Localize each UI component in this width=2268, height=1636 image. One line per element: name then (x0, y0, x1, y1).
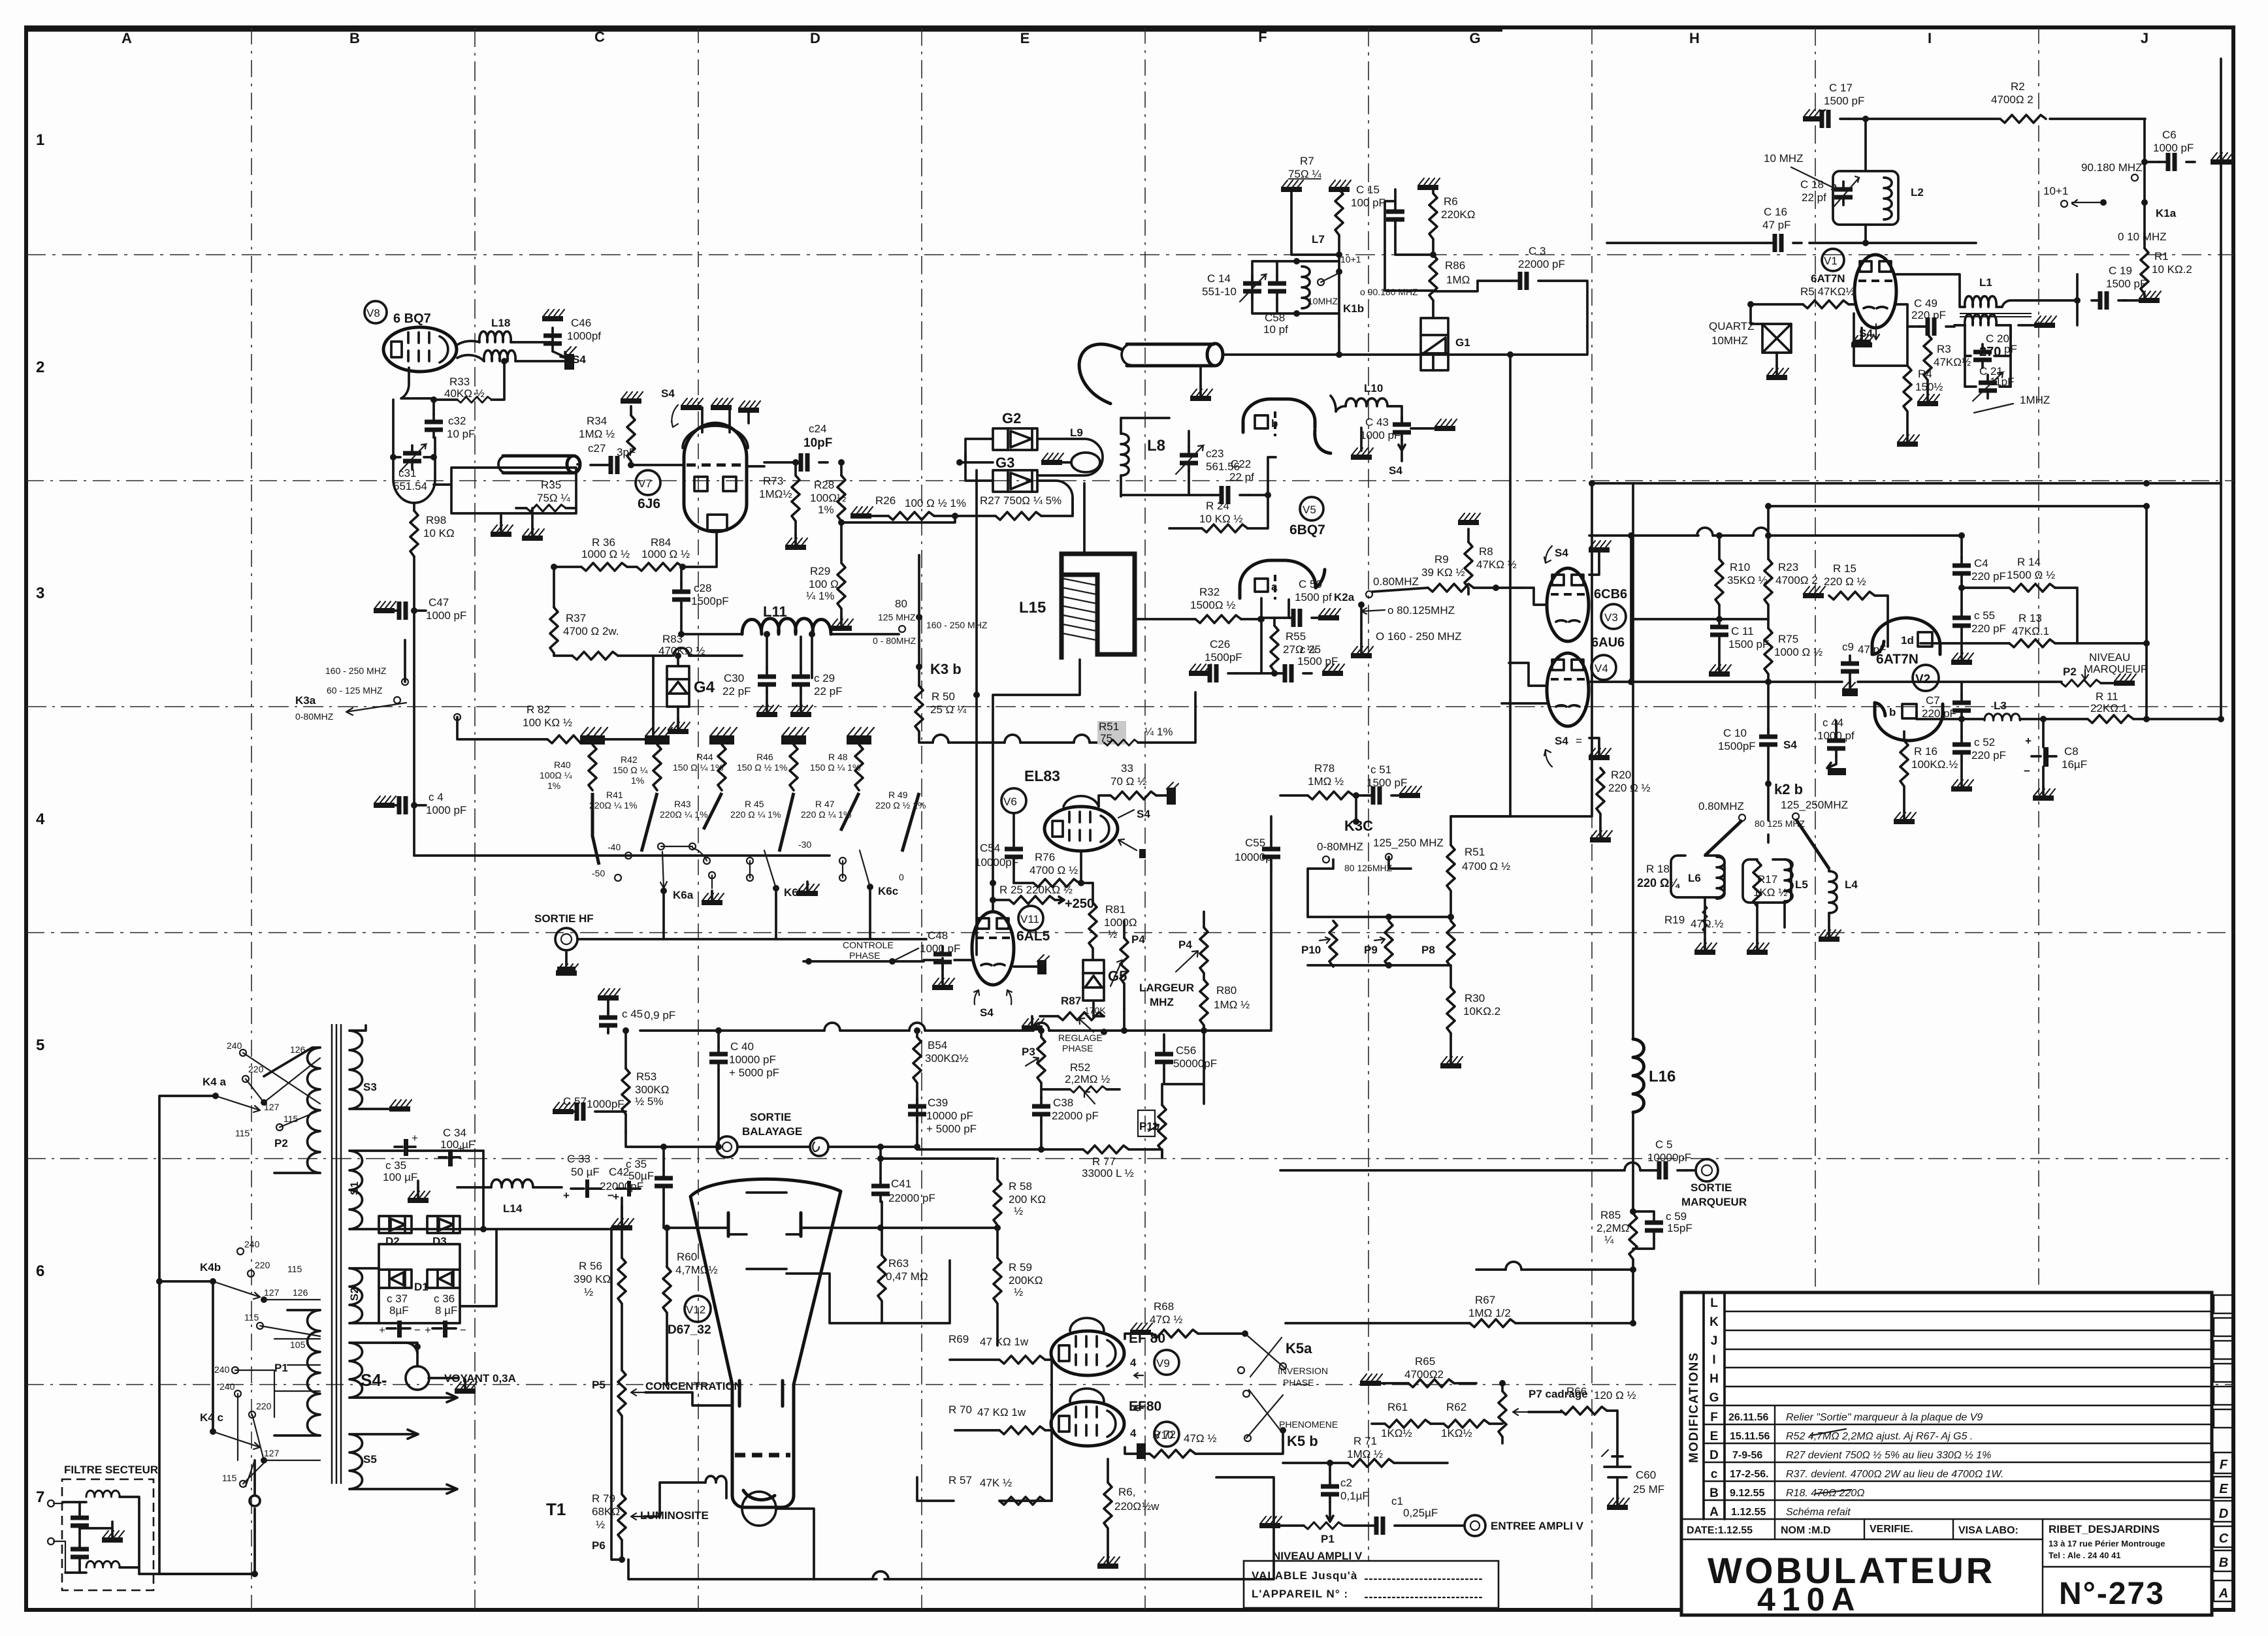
svg-text:126: 126 (293, 1287, 308, 1298)
marker bus (1589, 681, 1842, 683)
svg-text:G: G (1709, 1391, 1719, 1405)
resistor R9 (1428, 584, 1474, 592)
resistor R77 (1083, 1146, 1129, 1153)
svg-text:1500pF: 1500pF (1718, 740, 1756, 752)
svg-text:-50: -50 (592, 868, 605, 878)
svg-text:1: 1 (36, 131, 44, 149)
svg-text:50000pF: 50000pF (1173, 1057, 1217, 1070)
svg-text:1MΩ 1/2: 1MΩ 1/2 (1468, 1307, 1511, 1319)
resistor R24 (1202, 524, 1248, 532)
svg-text:+: + (457, 1142, 464, 1155)
terminal sortie marqueur (1686, 1169, 1694, 1172)
svg-text:39 KΩ ½: 39 KΩ ½ (1421, 566, 1465, 579)
svg-text:47 pF: 47 pF (1762, 219, 1790, 231)
svg-text:R17: R17 (1757, 873, 1777, 886)
svg-text:½: ½ (596, 1518, 605, 1531)
resistor R59 (994, 1258, 1001, 1304)
svg-text:−: − (460, 1324, 466, 1336)
svg-text:22KΩ.1: 22KΩ.1 (2090, 702, 2128, 714)
svg-text:c28: c28 (694, 582, 711, 594)
svg-text:R 77: R 77 (1092, 1155, 1116, 1168)
wire K3a bus (405, 640, 830, 856)
resistor R60 (663, 1267, 671, 1313)
wire to CRT plate (664, 1227, 728, 1229)
svg-text:c 36: c 36 (434, 1292, 455, 1305)
svg-text:Schéma refait: Schéma refait (1786, 1507, 1851, 1518)
svg-text:N°-273: N°-273 (2059, 1577, 2165, 1611)
svg-text:1500 pF: 1500 pF (1824, 95, 1864, 107)
svg-text:=: = (1576, 735, 1582, 747)
svg-text:L11: L11 (763, 603, 787, 620)
svg-text:V6: V6 (1003, 795, 1017, 808)
svg-text:1000 pF: 1000 pF (426, 609, 466, 622)
svg-text:22000 pF: 22000 pF (1518, 258, 1565, 270)
wires bottom CRT loop (628, 1476, 814, 1579)
svg-text:R67: R67 (1475, 1294, 1495, 1306)
svg-text:RIBET_DESJARDINS: RIBET_DESJARDINS (2049, 1523, 2160, 1535)
coil L14 (491, 1179, 533, 1187)
CRT envelope (690, 1179, 841, 1507)
svg-text:VISA LABO:: VISA LABO: (1958, 1525, 2018, 1536)
resistor R10 (1715, 559, 1723, 605)
svg-text:100 Ω: 100 Ω (809, 578, 839, 590)
resistor R78b (1308, 792, 1353, 799)
tube V7 (684, 423, 747, 532)
svg-text:C41: C41 (891, 1178, 911, 1190)
svg-text:25 Ω ¼: 25 Ω ¼ (930, 703, 967, 716)
svg-text:2,2MΩ ½: 2,2MΩ ½ (1065, 1073, 1110, 1085)
svg-text:1MΩ ½: 1MΩ ½ (1347, 1448, 1383, 1460)
svg-text:10000pF: 10000pF (975, 856, 1018, 869)
svg-text:¼: ¼ (1604, 1234, 1614, 1246)
trimmer C23 (1180, 447, 1198, 471)
svg-text:R 18: R 18 (1646, 863, 1670, 875)
svg-text:DATE:1.12.55: DATE:1.12.55 (1687, 1525, 1753, 1536)
svg-text:K4 a: K4 a (202, 1076, 226, 1088)
svg-text:V8: V8 (366, 307, 380, 319)
svg-text:551-10: 551-10 (1202, 285, 1237, 298)
resistor R14 (2009, 584, 2055, 592)
svg-text:47 KΩ 1w: 47 KΩ 1w (980, 1336, 1029, 1348)
svg-text:390 KΩ: 390 KΩ (574, 1273, 611, 1285)
svg-text:6AU6: 6AU6 (1591, 635, 1625, 650)
svg-text:INVERSION: INVERSION (1278, 1366, 1328, 1376)
svg-text:15pF: 15pF (1667, 1222, 1693, 1234)
svg-text:4700 Ω 2w.: 4700 Ω 2w. (563, 625, 619, 637)
svg-text:I: I (1928, 30, 1932, 46)
svg-text:C 19: C 19 (2109, 265, 2132, 277)
svg-text:G3: G3 (996, 455, 1014, 471)
svg-text:P1: P1 (1321, 1533, 1335, 1545)
svg-text:R 48: R 48 (828, 752, 848, 762)
svg-text:c: c (1711, 1468, 1718, 1481)
svg-text:50µF: 50µF (628, 1170, 654, 1182)
svg-text:S5: S5 (363, 1453, 377, 1466)
svg-text:-40: -40 (607, 842, 621, 852)
resistor R64 cathode (1104, 1483, 1112, 1528)
svg-text:V1: V1 (1824, 255, 1838, 267)
svg-text:220 Ω ½ 1%: 220 Ω ½ 1% (875, 800, 926, 810)
svg-text:R85: R85 (1600, 1209, 1621, 1221)
svg-text:R 57: R 57 (948, 1474, 972, 1486)
capacitor C44 (1827, 733, 1845, 756)
resistor R15 (1829, 592, 1875, 600)
svg-text:L'APPAREIL N° :: L'APPAREIL N° : (1252, 1588, 1348, 1600)
svg-text:+: + (563, 1189, 570, 1202)
svg-text:R23: R23 (1778, 561, 1798, 573)
svg-text:1500 Ω ½: 1500 Ω ½ (2007, 569, 2055, 581)
resistor R54 (913, 1037, 921, 1083)
svg-text:47K ½: 47K ½ (980, 1477, 1012, 1489)
svg-text:L15: L15 (1019, 599, 1046, 617)
svg-text:K: K (1709, 1315, 1719, 1329)
switch K2b (1765, 780, 1772, 787)
bottom long bus (814, 1477, 1274, 1579)
svg-text:4: 4 (1130, 1356, 1137, 1369)
svg-text:10+1: 10+1 (2043, 185, 2068, 197)
diode block G3 (993, 470, 1037, 492)
svg-text:R 15: R 15 (1833, 562, 1856, 575)
svg-text:1500Ω ½: 1500Ω ½ (1190, 599, 1235, 611)
svg-text:1MΩ ½: 1MΩ ½ (1308, 775, 1344, 788)
svg-text:MHZ: MHZ (1150, 996, 1174, 1008)
delay line cylinder (1127, 344, 1214, 366)
svg-text:10000p: 10000p (1235, 851, 1272, 863)
svg-text:220 pF: 220 pF (1971, 749, 2006, 762)
svg-text:c 29: c 29 (814, 672, 835, 684)
svg-text:R37. devient. 4700Ω 2W au lie: R37. devient. 4700Ω 2W au lieu de 4700Ω … (1786, 1469, 2003, 1480)
capacitor C6 (2160, 153, 2195, 171)
svg-text:L2: L2 (1911, 186, 1924, 199)
modification dates (1728, 1412, 1770, 1518)
wire L1 to C19 (2002, 274, 2077, 325)
row letters (1709, 1296, 1719, 1519)
diode block G1 (1421, 318, 1448, 370)
svg-text:120 Ω ½: 120 Ω ½ (1594, 1389, 1636, 1402)
svg-text:220 pF: 220 pF (1971, 622, 2006, 635)
svg-text:BALAYAGE: BALAYAGE (742, 1125, 802, 1138)
svg-text:REGLAGE: REGLAGE (1058, 1033, 1103, 1043)
svg-text:C 5: C 5 (1655, 1138, 1672, 1151)
svg-text:3: 3 (36, 585, 44, 602)
svg-text:PHENOMENE: PHENOMENE (1279, 1419, 1338, 1430)
svg-text:c 59: c 59 (1666, 1210, 1687, 1223)
svg-text:P8: P8 (1421, 944, 1435, 956)
wire K1b down to cylinder line (1338, 327, 1340, 355)
rectifier D2 (379, 1216, 412, 1233)
capacitor C29 (792, 669, 810, 692)
modifications column line (1704, 1292, 1725, 1519)
svg-text:F: F (2220, 1458, 2228, 1472)
svg-text:R 70: R 70 (948, 1403, 972, 1416)
svg-text:H: H (1709, 1372, 1719, 1386)
svg-text:c 35: c 35 (385, 1159, 406, 1172)
svg-text:80 125MHZ: 80 125MHZ (1344, 863, 1393, 873)
coil L1 secondary (1965, 315, 1996, 326)
resistor R33 (457, 397, 492, 403)
label V5 (1300, 497, 1323, 521)
resistor R4 (1903, 366, 1911, 411)
ground (681, 398, 703, 410)
svg-text:C55: C55 (1245, 837, 1265, 849)
svg-text:PHASE: PHASE (849, 950, 880, 961)
tube V4 (1547, 653, 1589, 726)
svg-text:1MΩ½: 1MΩ½ (759, 488, 792, 500)
svg-text:R19: R19 (1664, 914, 1685, 926)
filtre coil lower (86, 1561, 120, 1567)
svg-text:+ 5000 pF: + 5000 pF (926, 1123, 977, 1135)
svg-text:½w: ½w (1142, 1500, 1159, 1513)
svg-text:1KΩ½: 1KΩ½ (1381, 1427, 1412, 1439)
svg-text:+: + (425, 1324, 431, 1336)
svg-text:150 Ω ½ 1%: 150 Ω ½ 1% (737, 762, 787, 773)
svg-text:R34: R34 (587, 415, 607, 427)
svg-text:L14: L14 (503, 1202, 523, 1215)
ground (1803, 110, 1825, 121)
pot P7 cadrage (1498, 1391, 1506, 1437)
svg-text:5: 5 (36, 1036, 44, 1054)
svg-text:L9: L9 (1070, 426, 1083, 439)
svg-text:F: F (1710, 1411, 1718, 1424)
svg-text:S4: S4 (572, 353, 586, 366)
svg-text:L6: L6 (1688, 872, 1701, 884)
title block outer frame (1681, 1292, 2212, 1615)
svg-text:A: A (1709, 1505, 1719, 1519)
svg-text:220KΩ: 220KΩ (1441, 208, 1475, 221)
svg-text:220 Ω ½: 220 Ω ½ (1824, 575, 1866, 588)
svg-text:R5 47KΩ½: R5 47KΩ½ (1800, 285, 1855, 298)
svg-text:E: E (1710, 1430, 1719, 1443)
svg-text:C54: C54 (980, 842, 1000, 854)
resistor R84 (637, 563, 683, 571)
svg-text:−: − (414, 1324, 421, 1336)
svg-text:35KΩ ½: 35KΩ ½ (1727, 574, 1768, 586)
svg-text:33: 33 (1121, 762, 1133, 775)
svg-text:1MHZ: 1MHZ (2020, 394, 2050, 406)
svg-text:R 72: R 72 (1152, 1428, 1176, 1441)
svg-text:MARQUEUR: MARQUEUR (1681, 1196, 1747, 1208)
svg-text:6AL5: 6AL5 (1016, 929, 1050, 944)
resistor R76 (1033, 879, 1079, 887)
svg-text:R2: R2 (2011, 80, 2025, 93)
wire (1849, 119, 2145, 171)
resistor R73 (792, 475, 800, 521)
tube V8 (383, 327, 457, 372)
wire C12 to V4 (1509, 663, 1546, 686)
svg-text:C4: C4 (1974, 557, 1988, 569)
svg-text:S4: S4 (1783, 739, 1797, 751)
wire H bus under divider (1592, 482, 2221, 485)
K3b line (918, 555, 920, 686)
svg-text:47Ω ½: 47Ω ½ (1150, 1313, 1183, 1326)
ground (1860, 328, 1863, 340)
wire from L2 to grid (1809, 225, 1976, 243)
svg-text:V11: V11 (1020, 913, 1039, 925)
svg-text:¼ 1%: ¼ 1% (806, 590, 834, 602)
resistor R70 (999, 1426, 1045, 1434)
svg-text:L8: L8 (1147, 437, 1165, 455)
svg-text:R78: R78 (1314, 762, 1335, 775)
svg-text:R43: R43 (674, 799, 691, 809)
svg-text:R80: R80 (1216, 984, 1237, 997)
resistor R25 (1009, 896, 1055, 904)
capacitor C24 (792, 453, 828, 472)
capacitor C26 (1201, 664, 1237, 682)
top bus (1768, 505, 2146, 507)
L9 loop wire (1037, 439, 1103, 475)
svg-text:c24: c24 (809, 423, 826, 435)
svg-text:R 59: R 59 (1009, 1261, 1032, 1274)
pot P3 (1037, 1037, 1045, 1083)
svg-text:E: E (1020, 30, 1030, 46)
column divider lines (251, 27, 2039, 1610)
svg-text:S4: S4 (661, 387, 675, 400)
svg-text:6BQ7: 6BQ7 (1289, 522, 1325, 537)
svg-text:C46: C46 (571, 317, 591, 329)
right edge letter strip (2214, 1295, 2233, 1601)
svg-text:L16: L16 (1649, 1068, 1676, 1085)
svg-text:R65: R65 (1415, 1355, 1435, 1368)
svg-text:0-80MHZ: 0-80MHZ (295, 711, 334, 722)
svg-text:R 16: R 16 (1914, 745, 1937, 758)
svg-text:+: + (2025, 735, 2032, 747)
svg-text:10000 pF: 10000 pF (926, 1110, 973, 1122)
svg-text:0: 0 (899, 872, 904, 882)
resistor R2 (2000, 115, 2046, 123)
svg-text:R75: R75 (1778, 633, 1798, 645)
svg-text:1MΩ: 1MΩ (1446, 274, 1470, 286)
CRT electrodes (747, 1193, 786, 1269)
svg-text:NIVEAU AMPLI V: NIVEAU AMPLI V (1272, 1550, 1363, 1562)
tube V2 lower half (1875, 703, 1943, 741)
svg-text:10 pf: 10 pf (1263, 323, 1288, 336)
svg-text:10 KΩ: 10 KΩ (423, 527, 455, 539)
svg-text:P2: P2 (2063, 666, 2077, 678)
svg-text:10KΩ.2: 10KΩ.2 (1463, 1005, 1500, 1018)
svg-text:0,25µF: 0,25µF (1403, 1507, 1438, 1519)
ground (711, 398, 733, 410)
svg-text:17-2-56.: 17-2-56. (1730, 1469, 1769, 1480)
svg-text:R73: R73 (763, 475, 783, 487)
resistor R27 (996, 512, 1041, 520)
diode block G2 (993, 428, 1037, 450)
svg-text:E: E (2219, 1482, 2228, 1496)
svg-text:c1: c1 (1391, 1495, 1403, 1507)
svg-text:o 80.125MHZ: o 80.125MHZ (1387, 604, 1455, 617)
svg-text:1500 pf: 1500 pf (1295, 591, 1332, 603)
svg-text:b: b (1889, 706, 1896, 718)
svg-text:−: − (2024, 765, 2030, 777)
svg-text:220 Ω ½: 220 Ω ½ (1608, 782, 1651, 794)
svg-text:R83: R83 (662, 633, 683, 645)
svg-text:R86: R86 (1445, 259, 1465, 272)
svg-text:22 pf: 22 pf (1802, 191, 1826, 204)
svg-text:1MΩ ½: 1MΩ ½ (579, 428, 615, 440)
svg-text:80: 80 (895, 598, 907, 610)
svg-text:R 82: R 82 (526, 703, 550, 716)
capacitor C39 (908, 1099, 926, 1122)
trimmer C14 (1243, 276, 1261, 299)
ground bar right of V11 (1014, 965, 1037, 968)
svg-text:4: 4 (36, 810, 45, 828)
svg-text:47KΩ.1: 47KΩ.1 (2012, 625, 2049, 637)
tube V9 (1051, 1331, 1124, 1375)
svg-text:10 KΩ ½: 10 KΩ ½ (1199, 513, 1243, 525)
svg-text:0,47 MΩ: 0,47 MΩ (886, 1270, 928, 1283)
row lines L..A (1681, 1311, 2212, 1615)
cylinder ground stem (1199, 366, 1202, 387)
svg-text:P4: P4 (1131, 933, 1145, 946)
svg-text:C: C (2219, 1532, 2229, 1546)
ground (1281, 180, 1303, 192)
svg-text:R 56: R 56 (579, 1260, 602, 1272)
svg-text:47 KΩ 1w: 47 KΩ 1w (977, 1406, 1026, 1419)
svg-text:C 18: C 18 (1800, 178, 1824, 191)
svg-text:125_250 MHZ: 125_250 MHZ (1373, 837, 1444, 849)
trimmer C18 (1834, 182, 1853, 205)
marker lower bus (1476, 1268, 1506, 1271)
svg-text:220 Ω ¼ 1%: 220 Ω ¼ 1% (730, 809, 781, 820)
svg-text:C8: C8 (2064, 745, 2079, 758)
plate bus upper (1589, 534, 1698, 537)
CRT bulb (742, 1492, 776, 1526)
voyant lamp (406, 1366, 429, 1390)
switch K1a (2141, 199, 2148, 206)
wire sortie to switches (577, 887, 926, 939)
resistor R82 (547, 735, 593, 743)
svg-text:100Ω ¼: 100Ω ¼ (540, 770, 572, 780)
svg-text:R51: R51 (1099, 720, 1119, 733)
svg-text:L3: L3 (1994, 699, 2007, 712)
svg-text:115: 115 (244, 1312, 259, 1323)
pot P11 (1158, 1105, 1166, 1151)
svg-text:V5: V5 (1303, 504, 1316, 516)
svg-text:2,2MΩ: 2,2MΩ (1596, 1222, 1630, 1234)
tube V2 upper half (1872, 618, 1940, 654)
quartz X1 (1762, 324, 1791, 353)
mains switch (250, 1460, 260, 1574)
svg-text:220Ω: 220Ω (1114, 1500, 1141, 1513)
resistor R85 (1630, 1208, 1636, 1215)
wire L15 top (1083, 483, 1086, 554)
svg-text:B: B (349, 30, 360, 46)
svg-text:Tel : Ale . 24 40 41: Tel : Ale . 24 40 41 (2049, 1550, 2121, 1560)
capacitor C28 (672, 584, 690, 607)
svg-text:NOM :M.D: NOM :M.D (1781, 1525, 1830, 1536)
svg-text:10 KΩ.2: 10 KΩ.2 (2152, 263, 2192, 276)
svg-text:10MHZ: 10MHZ (1308, 296, 1338, 306)
svg-text:R37: R37 (566, 612, 586, 624)
vertical rail left of block (1630, 536, 1632, 682)
trimmer C21 (1979, 375, 1997, 398)
svg-text:1.12.55: 1.12.55 (1731, 1507, 1766, 1518)
svg-text:R 45: R 45 (745, 799, 764, 809)
svg-text:C 34: C 34 (443, 1127, 466, 1139)
svg-text:75Ω ¼: 75Ω ¼ (1288, 168, 1321, 180)
svg-text:V2: V2 (1915, 673, 1930, 686)
switch K6c (839, 858, 846, 864)
svg-text:11pF: 11pF (1990, 376, 2015, 388)
svg-text:40KΩ ½: 40KΩ ½ (444, 387, 485, 400)
svg-text:115: 115 (287, 1264, 302, 1274)
svg-text:SORTIE HF: SORTIE HF (534, 912, 594, 925)
coil L5 box (1743, 859, 1791, 903)
svg-text:10000 pF: 10000 pF (729, 1053, 776, 1066)
grounds row (580, 728, 874, 745)
capacitor C49 (1919, 317, 1954, 336)
wire L10 left (1331, 396, 1336, 411)
wire R9 to V3 grid (1522, 588, 1546, 605)
